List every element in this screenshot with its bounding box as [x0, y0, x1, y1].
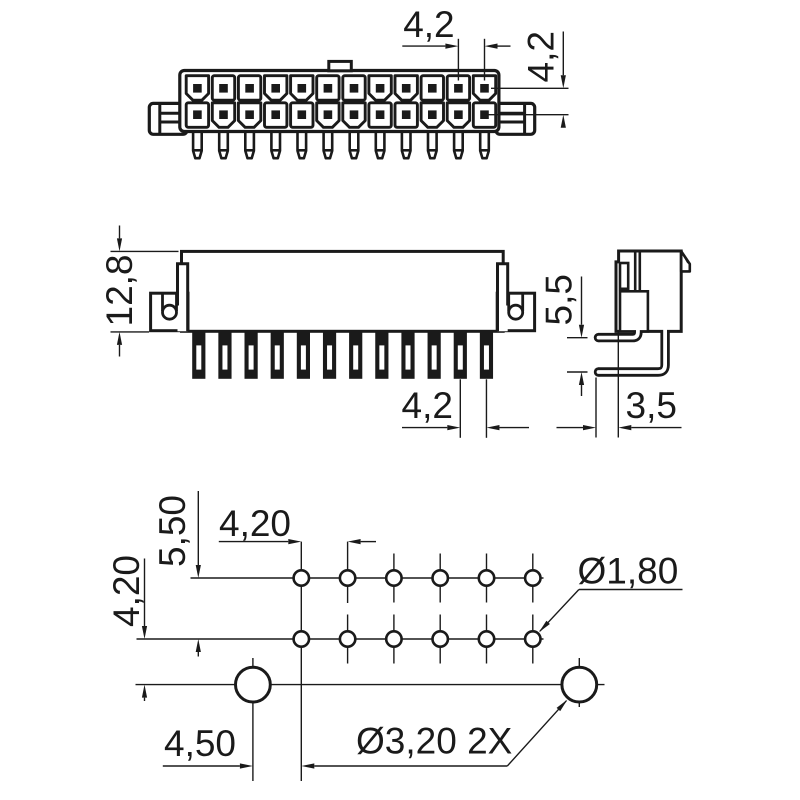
mounting hole 1 centreline / extension line — [252, 658, 254, 781]
leader and label diam 1,80 for pin holes — [539, 551, 683, 633]
pin hole row2 col4 (diam 1,80) — [433, 631, 448, 646]
contact pin square row2 col11 — [454, 110, 463, 119]
dimension 5,5 pin row spacing (side view) — [539, 274, 588, 396]
cavity row2 col2 — [212, 103, 234, 128]
contact pin square row1 col5 — [298, 84, 307, 93]
leader and label diam 3,20 2X for mounting holes — [356, 700, 568, 767]
pin hole row2 col3 (diam 1,80) — [386, 631, 401, 646]
cavity row2 col11 — [447, 103, 469, 128]
pin hole row1 col6 (diam 1,80) — [525, 570, 540, 585]
dimension 4,20 hole pitch — [219, 503, 376, 544]
contact pin square row2 col8 — [376, 110, 385, 119]
cavity row2 col1 — [186, 103, 208, 128]
front view pin tail 7 — [350, 129, 359, 158]
rear view pin tail 5 (solid section) — [297, 330, 310, 379]
contact pin square row1 col2 — [219, 84, 228, 93]
cavity row2 col7 — [343, 103, 365, 128]
rear view pin tail 1 (solid section) — [192, 330, 205, 379]
rear view pin tail 6 (solid section) — [323, 330, 336, 379]
contact pin square row1 col1 — [193, 84, 202, 93]
contact pin square row2 col4 — [271, 110, 280, 119]
dimension 12,8 body height (rear view, left) — [99, 226, 179, 357]
cavity row1 col5 — [291, 76, 313, 101]
mounting hole row centreline — [136, 684, 605, 686]
rear elevation view of connector — [151, 251, 535, 378]
contact pin square row2 col2 — [219, 110, 228, 119]
cavity row1 col4 — [265, 76, 287, 101]
dimension 5,50 hole row spacing — [152, 491, 201, 657]
front view pin tail 6 — [324, 129, 333, 158]
column 6 row2 centreline — [532, 615, 534, 664]
hole row 1 centreline — [191, 577, 544, 579]
contact pin square row1 col11 — [454, 84, 463, 93]
contact pin square row1 col7 — [350, 84, 359, 93]
front view pin tail 11 — [454, 129, 463, 158]
svg-text:4,20: 4,20 — [106, 555, 147, 627]
front view pin tail 10 — [428, 129, 437, 158]
svg-text:12,8: 12,8 — [99, 254, 140, 326]
side view inner step block upper — [620, 263, 628, 289]
front view pin tail 3 — [245, 129, 254, 158]
dimension 4,50 mounting hole to col1 — [163, 723, 508, 769]
pin hole row2 col6 (diam 1,80) — [525, 631, 540, 646]
svg-text:3,5: 3,5 — [626, 385, 677, 426]
cavity row2 col3 — [238, 103, 260, 128]
rear view pin tail 3 (solid section) — [245, 330, 258, 379]
rear view left flange foot — [151, 293, 188, 331]
column 1 centreline / extension line — [300, 542, 302, 781]
front view pin tail 8 — [376, 129, 385, 158]
mounting hole 2 (diam 3,20) — [562, 667, 597, 702]
column 2 row2 centreline — [347, 615, 349, 664]
side view upper row pin (right-angle) — [599, 331, 638, 338]
svg-text:4,2: 4,2 — [403, 4, 454, 45]
rear view pin tail 4 (solid section) — [271, 330, 284, 379]
front view pin tail 9 — [402, 129, 411, 158]
cavity row2 col5 — [291, 103, 313, 128]
cavity row1 col3 — [238, 76, 260, 101]
front view pin tail 12 — [480, 129, 489, 158]
rear view right peg slot — [507, 293, 510, 311]
hole row 2 centreline — [137, 638, 544, 640]
contact pin square row1 col10 — [428, 84, 437, 93]
front view pin tail 1 — [193, 129, 202, 158]
contact pin square row2 col6 — [324, 110, 333, 119]
side view body outline — [616, 251, 681, 331]
PCB drilling pattern — [136, 542, 605, 781]
contact pin square row2 col5 — [298, 110, 307, 119]
front view pin tail 4 — [271, 129, 280, 158]
rear view left mounting peg circle — [163, 305, 177, 319]
mounting hole 1 (diam 3,20) — [236, 667, 271, 702]
column 5 row1 centreline — [486, 554, 488, 603]
side profile view of connector — [594, 251, 690, 377]
pin hole row2 col5 (diam 1,80) — [479, 631, 494, 646]
contact pin square row2 col1 — [193, 110, 202, 119]
rear view pin tail 8 (solid section) — [375, 330, 388, 379]
column 2 centreline / extension line — [347, 542, 349, 603]
contact pin square row1 col4 — [271, 84, 280, 93]
rear view pin tail 12 (solid section) — [480, 330, 493, 379]
rear view right flange foot — [497, 293, 534, 331]
front view connector body outline — [180, 71, 499, 132]
pin hole row1 col3 (diam 1,80) — [386, 570, 401, 585]
rear view left peg slot — [161, 293, 164, 311]
front view of connector (mating face, 2x12 cavities) — [149, 61, 534, 158]
pin hole row1 col4 (diam 1,80) — [433, 570, 448, 585]
svg-text:4,20: 4,20 — [219, 503, 291, 544]
cavity row1 col12 — [473, 76, 495, 101]
pin hole row1 col2 (diam 1,80) — [340, 570, 355, 585]
mounting hole 2 centreline — [578, 658, 580, 707]
contact pin square row2 col10 — [428, 110, 437, 119]
svg-text:4,2: 4,2 — [521, 31, 562, 82]
side view mating face inner lines — [634, 253, 637, 291]
cavity row1 col8 — [369, 76, 391, 101]
rear view pin tail 10 (solid section) — [428, 330, 441, 379]
svg-text:5,5: 5,5 — [539, 274, 580, 325]
cavity row1 col10 — [421, 76, 443, 101]
column 4 row1 centreline — [439, 554, 441, 603]
contact pin square row1 col9 — [402, 84, 411, 93]
svg-text:5,50: 5,50 — [152, 495, 193, 567]
rear view pin tail 9 (solid section) — [401, 330, 414, 379]
pin hole row1 col5 (diam 1,80) — [479, 570, 494, 585]
cavity row1 col1 — [186, 76, 208, 101]
svg-text:Ø3,20 2X: Ø3,20 2X — [356, 721, 512, 762]
contact pin square row1 col12 — [480, 84, 489, 93]
cavity row2 col8 — [369, 103, 391, 128]
rear view pin tail 7 (solid section) — [349, 330, 362, 379]
cavity row1 col9 — [395, 76, 417, 101]
column 3 row1 centreline — [393, 554, 395, 603]
side view lower row pin (right-angle) — [599, 331, 666, 372]
column 6 row1 centreline — [532, 554, 534, 603]
rear view body outline — [182, 251, 504, 331]
front view pin tail 2 — [219, 129, 228, 158]
cavity row2 col12 — [473, 103, 495, 128]
rear view right mounting peg circle — [509, 305, 523, 319]
rear view pin tail 2 (solid section) — [218, 330, 231, 379]
column 3 row2 centreline — [393, 615, 395, 664]
rear view right flange plate — [498, 264, 508, 332]
cavity row1 col7 — [343, 76, 365, 101]
contact pin square row2 col12 — [480, 110, 489, 119]
dimension 4,2 row spacing (front view, right) — [488, 31, 569, 128]
cavity row1 col2 — [212, 76, 234, 101]
pin hole row1 col1 (diam 1,80) — [294, 570, 309, 585]
rear view left flange plate — [178, 264, 188, 332]
cavity row1 col6 — [317, 76, 339, 101]
rear view pin tail 11 (solid section) — [454, 330, 467, 379]
svg-text:Ø1,80: Ø1,80 — [578, 551, 679, 592]
pin hole row2 col1 (diam 1,80) — [294, 631, 309, 646]
contact pin square row1 col6 — [324, 84, 333, 93]
contact pin square row2 col7 — [350, 110, 359, 119]
svg-text:4,50: 4,50 — [164, 723, 236, 764]
front view pin tail 5 — [298, 129, 307, 158]
side view inner step block lower — [620, 291, 648, 331]
dimension 4,20 row2 to mounting row — [106, 555, 147, 701]
contact pin square row2 col3 — [245, 110, 254, 119]
column 5 row2 centreline — [486, 615, 488, 664]
dimension 3,5 pin tip to face (side view) — [557, 332, 682, 438]
column 4 row2 centreline — [439, 615, 441, 664]
front view right mounting flange — [496, 103, 535, 134]
polarization rib on top of body — [329, 61, 352, 70]
cavity row2 col9 — [395, 103, 417, 128]
cavity row2 col10 — [421, 103, 443, 128]
dimension 4,2 pitch (front view, top) — [402, 4, 510, 81]
cavity row2 col4 — [265, 103, 287, 128]
front view left mounting flange — [149, 103, 187, 134]
contact pin square row1 col3 — [245, 84, 254, 93]
pin hole row2 col2 (diam 1,80) — [340, 631, 355, 646]
dimension 4,2 pin pitch (rear view, bottom) — [402, 379, 530, 438]
cavity row2 col6 — [317, 103, 339, 128]
contact pin square row2 col9 — [402, 110, 411, 119]
side view latch tab — [681, 251, 690, 271]
cavity row1 col11 — [447, 76, 469, 101]
svg-text:4,2: 4,2 — [402, 385, 453, 426]
contact pin square row1 col8 — [376, 84, 385, 93]
